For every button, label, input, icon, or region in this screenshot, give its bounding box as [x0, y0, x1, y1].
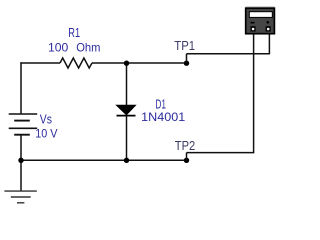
svg-text:1N4001: 1N4001 — [141, 110, 185, 124]
resistor R1 — [60, 58, 92, 68]
svg-text:TP1: TP1 — [174, 39, 195, 53]
svg-text:Vs: Vs — [40, 111, 53, 126]
wire: top horizontal left segment (battery to resistor) — [20, 62, 60, 64]
wire: diode branch top — [126, 63, 128, 106]
svg-text:100: 100 — [48, 41, 69, 55]
node junction diode-bottom — [124, 158, 129, 163]
multimeter XMM1 — [246, 6, 275, 33]
wire: meter right lead — [268, 34, 270, 55]
wire: TP1 to meter right lead — [187, 53, 270, 55]
wire: bottom node down to ground — [20, 160, 22, 191]
svg-text:Ohm: Ohm — [76, 41, 100, 55]
ground — [4, 191, 36, 203]
diode D1 — [117, 105, 136, 115]
wire: TP2 to meter left lead — [187, 152, 254, 154]
svg-text:10 V: 10 V — [35, 127, 57, 141]
node TP2 — [184, 158, 189, 163]
wire: left vertical (top wire down to battery +) — [20, 62, 22, 113]
wire: top horizontal right segment (resistor to TP1 node) — [92, 62, 187, 64]
wire: TP1 riser — [186, 54, 188, 64]
wire: diode branch bottom — [126, 116, 128, 160]
node junction diode-top — [124, 61, 129, 66]
wire: TP2 riser — [186, 153, 188, 161]
node junction battery-ground — [18, 158, 23, 163]
wire: bottom horizontal (node to TP2) — [21, 159, 187, 161]
battery Vs — [9, 114, 38, 135]
svg-text:TP2: TP2 — [175, 139, 195, 153]
svg-text:R1: R1 — [68, 26, 80, 40]
wire: battery - down to bottom node — [20, 135, 22, 161]
wire: meter left lead — [253, 34, 255, 154]
node TP1 — [184, 61, 189, 66]
